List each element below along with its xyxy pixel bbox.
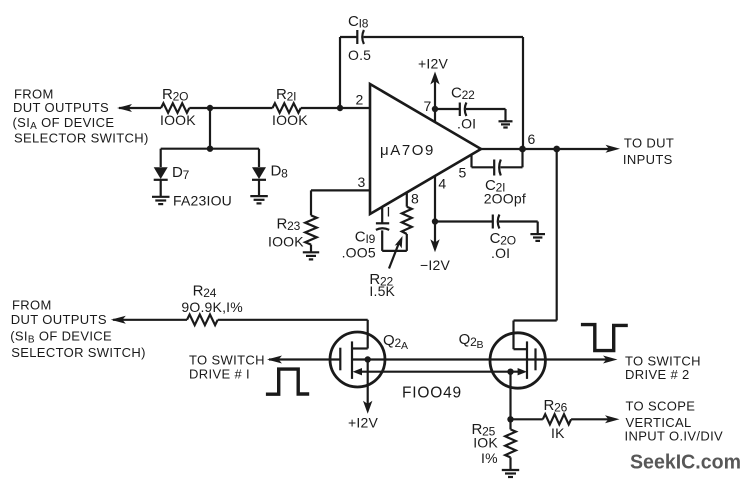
svg-text:SeekIC.com: SeekIC.com [630,451,741,474]
resistor R24 [181,282,243,325]
svg-text:SELECTOR SWITCH): SELECTOR SWITCH) [14,131,149,146]
svg-text:SELECTOR SWITCH): SELECTOR SWITCH) [11,345,146,360]
svg-text:TO SCOPE: TO SCOPE [626,399,696,414]
wire: Q2B substrate down to R25/R26 node [507,372,513,430]
svg-text:3: 3 [358,174,366,190]
wire: R24 to Q2A drain [218,320,368,349]
ground at C20 [530,234,545,241]
wire: op-amp pin 4 to -12V [420,176,450,274]
svg-text:+I2V: +I2V [418,56,448,72]
resistor R21 [272,86,308,128]
svg-text:(SIB OF DEVICE: (SIB OF DEVICE [10,329,112,346]
svg-text:FROM: FROM [12,298,52,313]
svg-text:μA7O9: μA7O9 [380,142,435,159]
power +12V at pin 7 [418,56,448,123]
node label: TO SWITCH DRIVE #2 [625,354,701,383]
svg-text:.OI: .OI [457,116,476,132]
wire: op-amp pin 3 [311,174,370,215]
svg-text:INPUT O.IV/DIV: INPUT O.IV/DIV [625,429,724,444]
svg-text:FA23IOU: FA23IOU [173,193,232,209]
wire: substrate link Q2A-Q2B [353,368,527,375]
wire: Q2A gate to switch drive 1 [267,356,340,364]
capacitor C18 feedback branch [340,13,523,149]
ground under R23 [303,252,319,259]
wire: Q2A source to Q2B gate and switch drive 2 [352,356,618,364]
svg-text:R2O: R2O [162,86,188,104]
capacitor C22 [435,85,506,132]
svg-text:−I2V: −I2V [420,257,450,273]
ground under R25 [502,470,519,477]
svg-text:IOK: IOK [473,434,498,450]
svg-text:TO DUT: TO DUT [624,136,674,151]
svg-text:8: 8 [411,191,419,207]
resistor R22 at pin 8 [369,191,419,300]
wire: arrow to DUT outputs B [111,316,187,324]
wire: R20 to R21 [189,107,272,109]
svg-text:+I2V: +I2V [348,415,378,431]
resistor R20 [160,86,196,128]
svg-text:CI8: CI8 [348,13,369,31]
waveform: negative pulse [581,325,628,351]
svg-text:R24: R24 [193,282,217,300]
svg-text:C22: C22 [451,85,475,103]
diode D7 [154,149,190,197]
ground at C22 [499,121,513,127]
svg-text:CI9: CI9 [355,229,376,247]
svg-text:7: 7 [424,98,432,114]
diode D8 [252,149,288,196]
wire: output node down to Q2B drain [514,149,557,349]
resistor R25 [472,421,516,470]
node label: TO SCOPE VERTICAL INPUT 0.1V/DIV [625,399,724,444]
op-amp U1 uA709 [370,84,481,214]
waveform: positive pulse [266,369,309,394]
svg-text:I: I [387,204,391,220]
node label: FROM DUT OUTPUTS (S1A OF DEVICE SELECTOR SWITCH) [13,87,149,146]
node label: TO DUT INPUTS [623,136,674,168]
svg-text:INPUTS: INPUTS [623,152,673,167]
svg-text:IOOK: IOOK [272,112,308,128]
svg-text:IOOK: IOOK [268,234,304,250]
transistor Q2B [459,331,546,388]
ground under D7 [152,197,170,204]
node label: TO SWITCH DRIVE #1 [189,353,265,382]
svg-text:R23: R23 [277,216,301,234]
ground under D8 [250,196,267,203]
svg-text:DUT OUTPUTS: DUT OUTPUTS [13,100,109,115]
svg-text:DRIVE # I: DRIVE # I [189,367,250,382]
svg-text:TO SWITCH: TO SWITCH [189,353,265,368]
svg-text:R26: R26 [544,397,568,415]
transistor Q2A [330,332,408,387]
svg-text:IOOK: IOOK [160,112,196,128]
wire: R21 to op-amp pin 2 [301,107,370,109]
svg-text:.OI: .OI [491,245,510,261]
svg-text:DRIVE # 2: DRIVE # 2 [625,367,690,382]
svg-text:2OOpf: 2OOpf [484,191,526,207]
svg-text:DUT OUTPUTS: DUT OUTPUTS [11,312,107,327]
node: junction at R20/R21 to diodes [207,105,213,111]
svg-text:4: 4 [438,176,446,192]
svg-text:2: 2 [356,92,364,108]
svg-text:.OO5: .OO5 [342,245,376,261]
svg-text:(SIA OF DEVICE: (SIA OF DEVICE [13,115,115,132]
wire: junction down to diode pair [161,108,259,152]
svg-text:R2I: R2I [276,86,296,104]
svg-text:5: 5 [459,165,467,181]
svg-text:9O.9K,I%: 9O.9K,I% [181,299,243,315]
svg-text:FIOO49: FIOO49 [402,385,462,402]
svg-text:IK: IK [551,425,565,441]
wire: arrow to DUT outputs A [117,104,161,112]
svg-text:I.5K: I.5K [369,283,395,299]
svg-text:I%: I% [481,450,498,466]
resistor R26 [511,397,620,441]
power +12V below Q2A [348,360,378,431]
capacitor C19 at pin 1 [342,204,407,261]
node label: FROM DUT OUTPUTS (S1B OF DEVICE SELECTOR SWITCH) [10,298,146,361]
capacitor C20 [435,215,538,262]
resistor R23 [268,215,317,252]
node: feedback junction at pin 2 [337,105,343,111]
wire: op-amp output to DUT inputs [481,131,620,153]
capacitor C21 pin5 to pin6 [459,149,526,207]
svg-text:6: 6 [528,131,536,147]
svg-text:O.5: O.5 [348,47,371,63]
